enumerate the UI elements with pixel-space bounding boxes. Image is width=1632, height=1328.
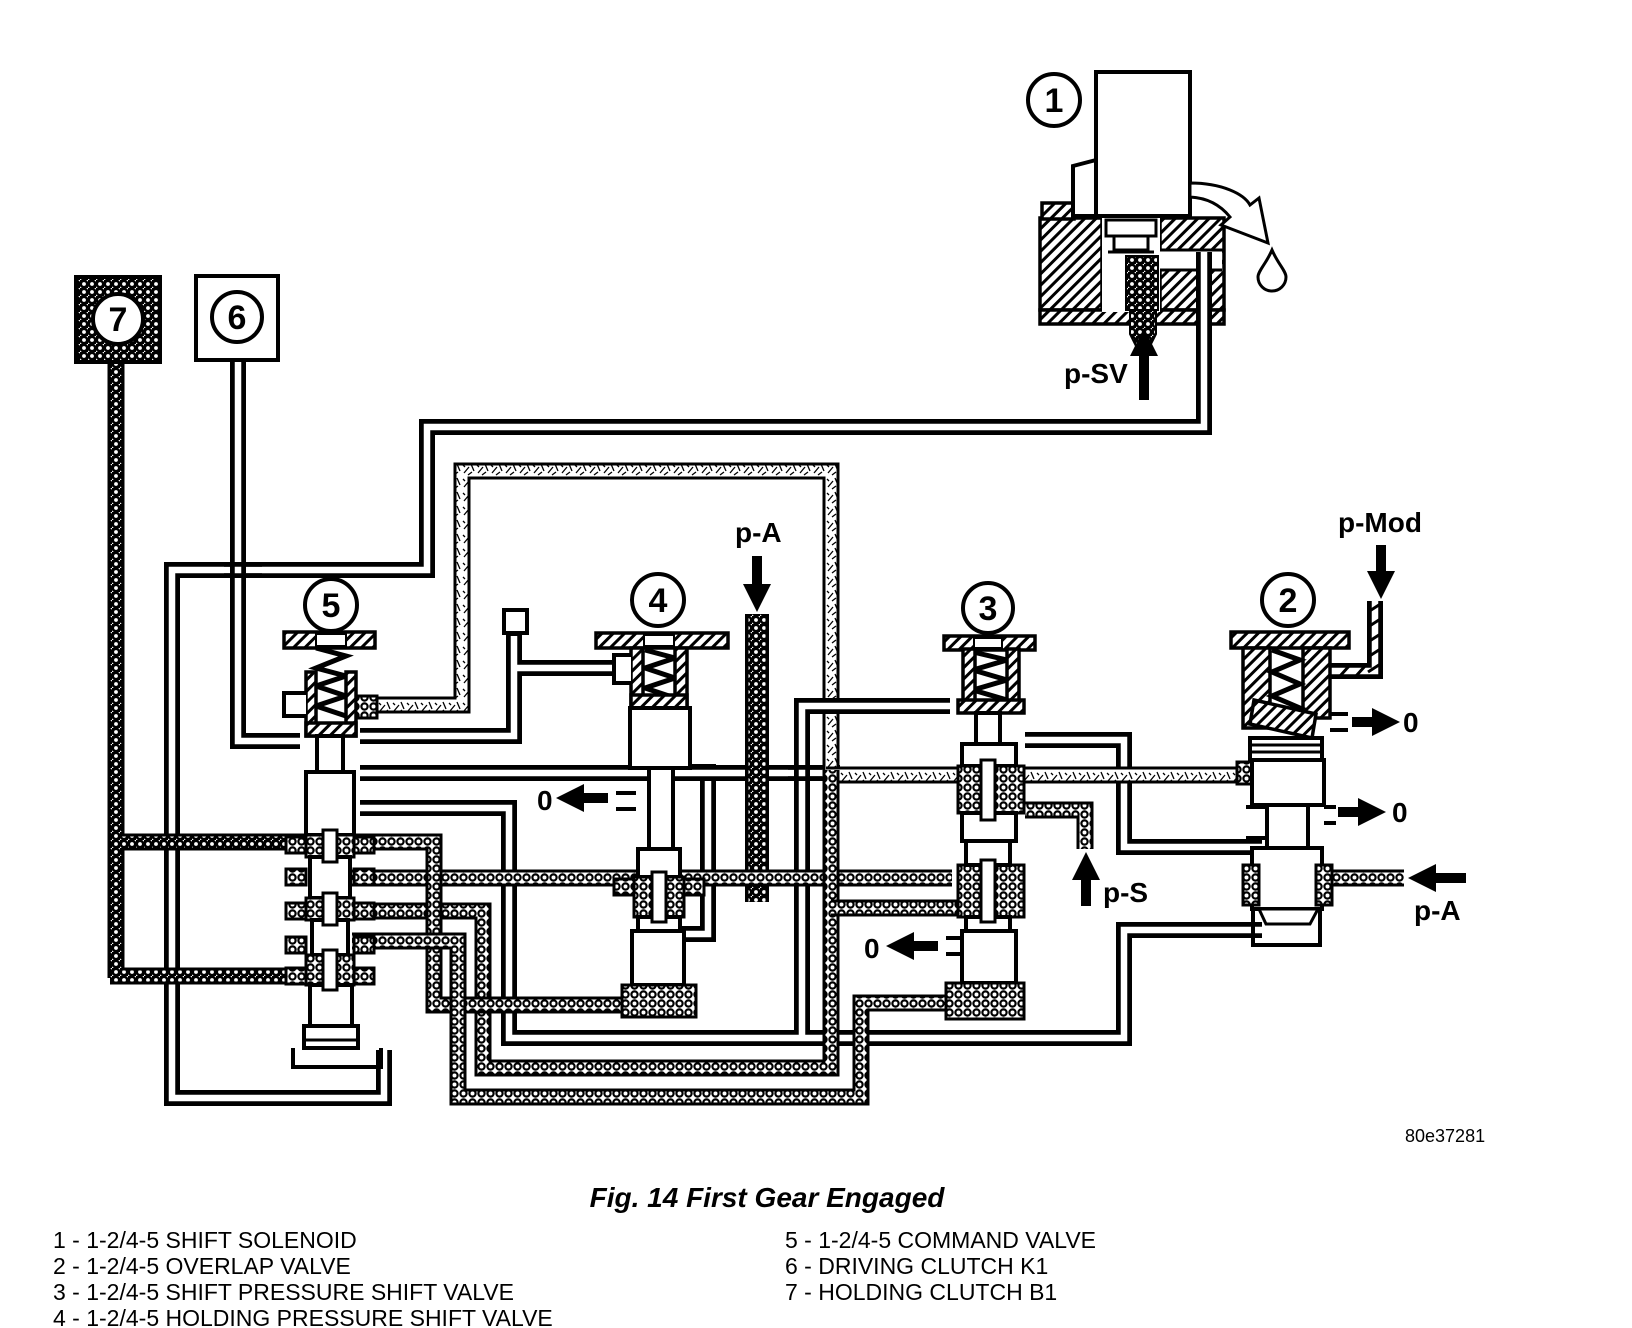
- wire driving clutch K1 pipe (box 6 to valve 5 left port): [238, 358, 300, 741]
- wire p-S branch from valve 3: [1025, 810, 1085, 849]
- svg-text:Fig. 14 First Gear Engaged: Fig. 14 First Gear Engaged: [590, 1182, 946, 1213]
- valve 5 command valve: [284, 579, 381, 1067]
- svg-text:2 - 1-2/4-5 OVERLAP VALVE: 2 - 1-2/4-5 OVERLAP VALVE: [53, 1253, 351, 1279]
- wire solenoid pilot pipe p-SV loop (solenoid to valve 5 bottom): [172, 256, 1204, 1098]
- svg-text:0: 0: [1392, 797, 1408, 828]
- shift solenoid U1 assembly: [1028, 72, 1224, 346]
- svg-text:0: 0: [537, 785, 553, 816]
- wire valve 3 right port to valve 2 left port: [1025, 740, 1262, 847]
- svg-text:p-A: p-A: [1414, 895, 1461, 926]
- valve 4 holding pressure shift valve: [596, 574, 728, 1017]
- wire pressurized line valve 5 channel to valve 4 bottom cap: [300, 842, 630, 1005]
- svg-text:1 - 1-2/4-5 SHIFT SOLENOID: 1 - 1-2/4-5 SHIFT SOLENOID: [53, 1227, 357, 1253]
- wire solenoid outlet channel through housing: [1196, 252, 1212, 336]
- svg-text:7: 7: [109, 301, 128, 339]
- wire valve 4 right bypass pipe: [680, 772, 708, 934]
- svg-text:p-A: p-A: [735, 517, 782, 548]
- svg-text:3: 3: [979, 590, 998, 628]
- wire p-Mod inlet channel to valve 2 spring chamber: [1328, 601, 1382, 676]
- wire valve3 left pipe redrawn over textured crossing: [815, 698, 950, 714]
- wire pressurized branch junction to valve 3 lower channel: [831, 900, 958, 917]
- wire p-A supply vertical line to valve 4 area: [745, 614, 769, 902]
- holding clutch B1 box 7: [76, 277, 160, 362]
- svg-text:7 - HOLDING CLUTCH B1: 7 - HOLDING CLUTCH B1: [785, 1279, 1057, 1305]
- wire p-A stub at valve 2 right: [1320, 870, 1404, 887]
- svg-text:1: 1: [1045, 82, 1064, 120]
- svg-text:p-Mod: p-Mod: [1338, 507, 1422, 538]
- wire pressurized loop from valve 5 spring port over valve 4 down to junction: [352, 471, 831, 775]
- svg-text:5: 5: [322, 587, 341, 625]
- svg-text:4: 4: [649, 582, 668, 620]
- svg-text:6: 6: [228, 299, 247, 337]
- wire crossing patch solenoid pipe over K1 pipe: [224, 564, 262, 575]
- valve 3 shift pressure shift valve: [944, 583, 1035, 1019]
- svg-text:80e37281: 80e37281: [1405, 1126, 1485, 1146]
- wire valve 5 right port toward overlap valve 2 (plain section): [360, 765, 840, 781]
- svg-text:5 - 1-2/4-5 COMMAND VALVE: 5 - 1-2/4-5 COMMAND VALVE: [785, 1227, 1096, 1253]
- svg-text:4 - 1-2/4-5 HOLDING PRESSURE S: 4 - 1-2/4-5 HOLDING PRESSURE SHIFT VALVE: [53, 1305, 553, 1328]
- svg-text:p-S: p-S: [1103, 877, 1148, 908]
- wire crossing patch valve5-valve2 pipe over bottom network riser: [788, 767, 822, 778]
- blind plug cap near valve 4: [504, 610, 527, 633]
- wire pressurized drop from junction to bottom loop and valve 5 port: [352, 770, 831, 1068]
- svg-text:0: 0: [864, 933, 880, 964]
- wire shift-pressure network: valve5, valve3, valve2 bottom loop: [360, 706, 1262, 1038]
- svg-text:2: 2: [1279, 582, 1298, 620]
- leak arrow (curved) at solenoid: [1190, 183, 1268, 243]
- svg-text:0: 0: [1403, 707, 1419, 738]
- svg-text:3 - 1-2/4-5 SHIFT PRESSURE SHI: 3 - 1-2/4-5 SHIFT PRESSURE SHIFT VALVE: [53, 1279, 514, 1305]
- p-SV arrow: [1130, 328, 1158, 400]
- oil drop icon: [1258, 250, 1286, 291]
- wire holding clutch B1 pressurized line (box 7 to valve 5 left ports): [110, 358, 300, 978]
- driving clutch K1 box 6: [196, 276, 278, 360]
- wire pressurized line valve5 to valve3 through valve4 (p-A distribution): [352, 870, 952, 887]
- wire pressurized line junction to valve 2 left port: [826, 767, 1262, 784]
- wire pressurized loop valve 3 bottom cap to valve 5 port: [352, 941, 952, 1097]
- svg-text:6 - DRIVING CLUTCH K1: 6 - DRIVING CLUTCH K1: [785, 1253, 1048, 1279]
- svg-text:p-SV: p-SV: [1064, 358, 1128, 389]
- valve 2 overlap valve: [1231, 574, 1349, 945]
- wire valve 5 right port to valve 4 spring chamber: [360, 634, 625, 736]
